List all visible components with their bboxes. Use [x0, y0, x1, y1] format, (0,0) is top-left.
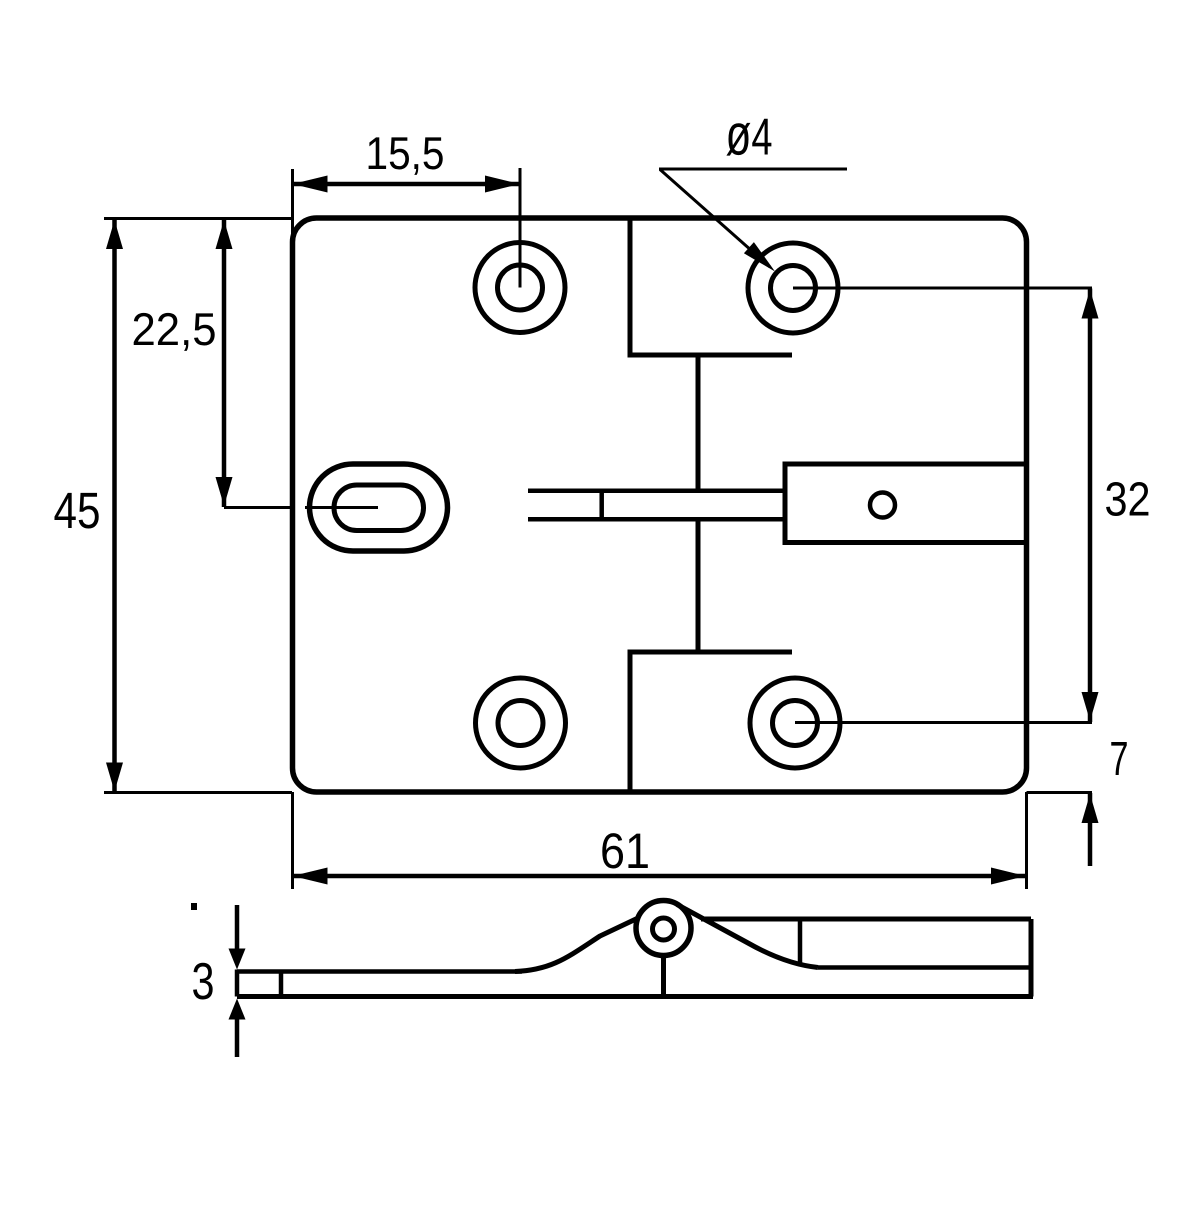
svg-text:ø4: ø4	[726, 103, 773, 168]
slot center line	[224, 506, 378, 509]
side view: mid line right	[818, 965, 1031, 970]
extension line hole TL vertical	[519, 168, 522, 288]
side view: left step	[279, 972, 284, 997]
extension line top-left horizontal	[104, 217, 292, 220]
slot outer	[310, 464, 448, 551]
center tongue axis line	[696, 355, 701, 652]
plate outline (plan view)	[293, 218, 1027, 792]
side view: knuckle pin hole	[653, 918, 675, 940]
side view: rise curve to knuckle	[515, 919, 637, 972]
slot inner	[334, 485, 424, 531]
hole bottom-right	[750, 678, 840, 768]
dim line 7 (below)	[1088, 793, 1093, 866]
hole bottom-left	[476, 678, 566, 768]
hole top-left	[475, 243, 565, 333]
side view: cut below knuckle	[661, 955, 666, 997]
leader dia4	[659, 169, 847, 267]
bottom cutout line	[630, 652, 792, 792]
svg-text:32: 32	[1105, 474, 1151, 527]
tongue strip	[528, 491, 785, 520]
side view: top edge left	[237, 969, 522, 974]
extension line hole BR horizontal	[795, 721, 1092, 724]
dim 3 arrows	[235, 905, 240, 1057]
side view: bottom edge	[237, 994, 1033, 999]
side view: top edge right	[701, 917, 1031, 922]
extension line x292 above plate	[291, 169, 294, 241]
dim line 61	[293, 874, 1027, 879]
svg-text:22,5: 22,5	[132, 303, 217, 355]
extension line bottom-left horizontal	[104, 791, 292, 794]
dim line 15,5	[293, 182, 521, 187]
svg-text:15,5: 15,5	[366, 127, 445, 179]
svg-text:45: 45	[54, 482, 101, 539]
side view: left end	[235, 970, 240, 997]
latch rectangle hole	[870, 493, 895, 518]
small dot artifact	[191, 903, 197, 910]
side view: knuckle outer	[636, 901, 691, 956]
extension line x1026 below plate	[1025, 792, 1028, 889]
extension line bottom-right horizontal	[1027, 791, 1093, 794]
hole top-right	[748, 243, 838, 333]
extension line x292 below plate	[291, 792, 294, 889]
side view: right edge	[1029, 919, 1034, 997]
dim line 22,5	[222, 219, 227, 507]
extension line hole TR horizontal	[793, 287, 1092, 290]
top cutout line	[630, 218, 792, 355]
latch rectangle	[785, 464, 1027, 543]
side view: step right	[798, 919, 803, 963]
dim line 45	[112, 219, 117, 793]
svg-text:61: 61	[600, 823, 650, 879]
dim line 32	[1088, 289, 1093, 723]
svg-text:7: 7	[1110, 733, 1129, 786]
side view: beak curve	[677, 904, 818, 967]
svg-text:3: 3	[192, 953, 215, 1011]
